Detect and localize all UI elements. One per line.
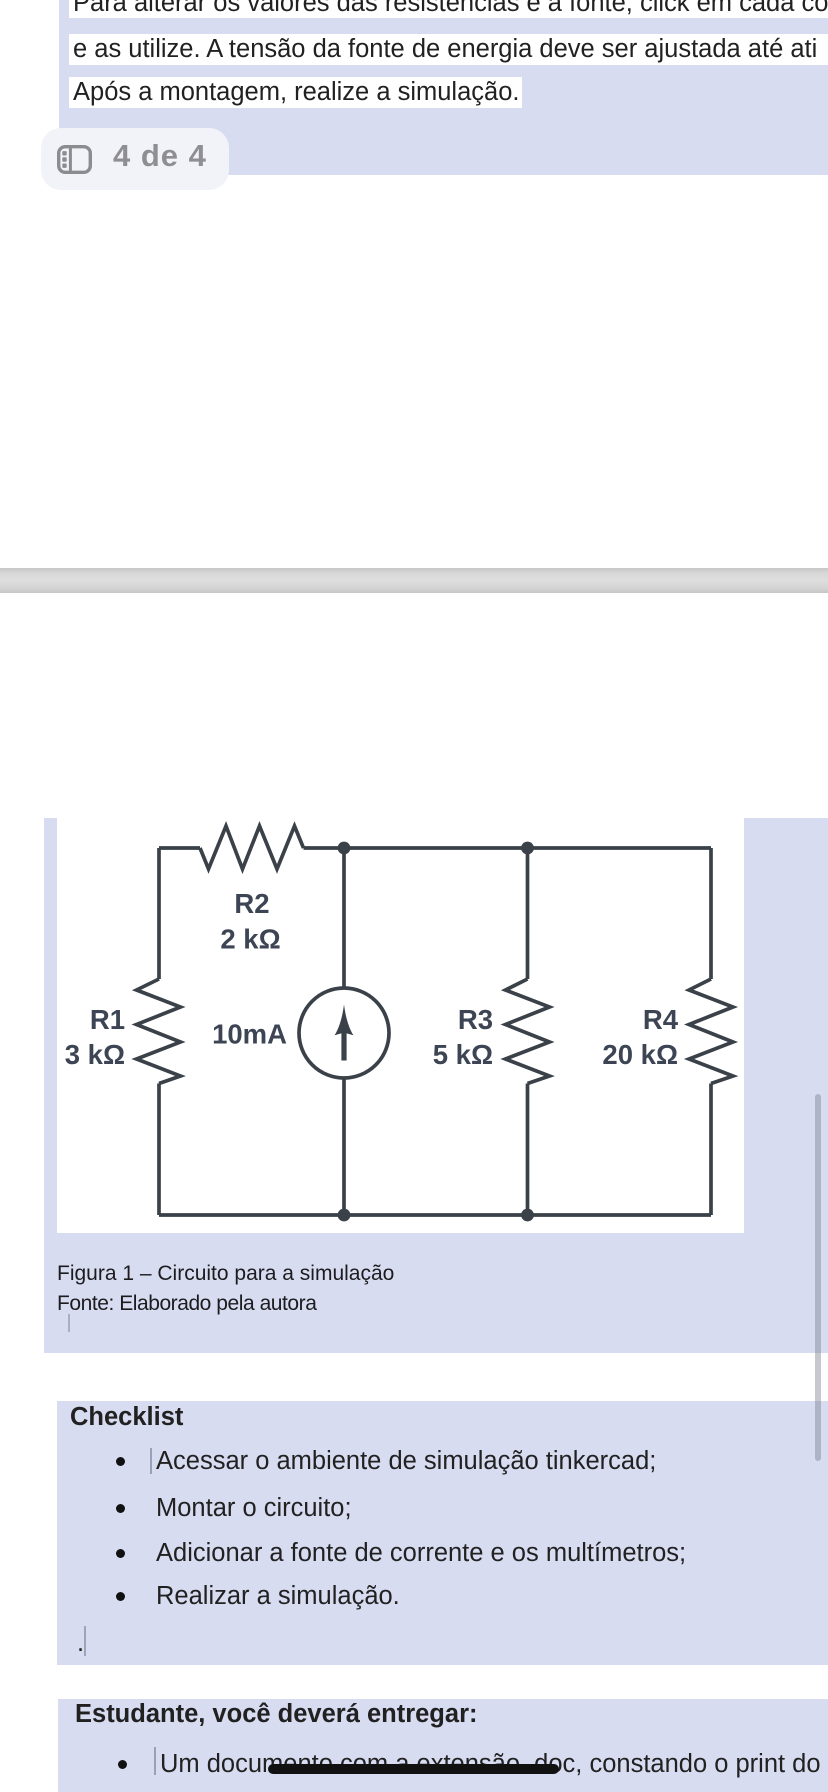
value 20 kΩ <box>602 1039 678 1070</box>
circuit highlighted block <box>44 818 828 1353</box>
wire top left-segment <box>159 846 200 850</box>
value 5 kΩ <box>433 1039 493 1070</box>
scrollbar <box>815 1094 821 1461</box>
caret under caption <box>68 1314 70 1332</box>
wire R4 bottom <box>709 1084 713 1216</box>
label R1 <box>90 1004 125 1035</box>
svg-text:2 kΩ: 2 kΩ <box>220 924 280 955</box>
resistor R4 <box>689 979 733 1084</box>
checklist highlighted block <box>57 1401 828 1665</box>
black redaction bar <box>268 1764 559 1774</box>
node top-right <box>521 842 534 855</box>
svg-text:R2: R2 <box>234 888 269 919</box>
estudante highlighted block <box>58 1699 828 1792</box>
wire R3 top <box>526 848 530 979</box>
gray page separator bar <box>0 568 828 593</box>
checklist heading <box>70 1403 183 1432</box>
resistor R1 <box>137 979 181 1084</box>
label R3 <box>458 1004 493 1035</box>
page indicator pill <box>41 128 229 190</box>
svg-text:R4: R4 <box>643 1004 679 1035</box>
top highlighted paragraph block <box>59 0 828 175</box>
svg-text:R1: R1 <box>90 1004 125 1035</box>
resistor R2 <box>200 826 304 869</box>
estudante heading <box>75 1700 477 1729</box>
wire bottom <box>159 1213 711 1217</box>
wire source top <box>342 848 346 987</box>
white figure background <box>57 818 744 1233</box>
wire source bottom <box>342 1080 346 1216</box>
node top-center <box>338 842 351 855</box>
bullets <box>116 1457 125 1466</box>
value 10mA <box>212 1019 287 1050</box>
pill text <box>113 138 207 174</box>
svg-text:20 kΩ: 20 kΩ <box>602 1039 678 1070</box>
line 2 text <box>73 35 817 64</box>
wire R3 bottom <box>526 1084 530 1216</box>
wire left vertical bottom <box>157 1084 161 1216</box>
svg-text:5 kΩ: 5 kΩ <box>433 1039 493 1070</box>
svg-text:3 kΩ: 3 kΩ <box>65 1039 125 1070</box>
wire left vertical top <box>157 848 161 979</box>
stray period + caret <box>77 1629 84 1658</box>
line 3 text <box>73 78 519 107</box>
svg-text:10mA: 10mA <box>212 1019 287 1050</box>
line 1 text <box>73 0 828 18</box>
wire R4 top <box>709 848 713 979</box>
resistor R3 <box>506 979 550 1084</box>
value 3 kΩ <box>65 1039 125 1070</box>
current source I1 10mA <box>299 988 389 1078</box>
line 2 white strip <box>69 34 828 65</box>
line 1 white strip <box>69 0 828 18</box>
value 2 kΩ <box>220 924 280 955</box>
node bottom-center <box>338 1209 351 1222</box>
figure caption <box>57 1259 394 1289</box>
svg-text:R3: R3 <box>458 1004 493 1035</box>
bullet <box>118 1760 127 1769</box>
sidebar icon <box>57 145 92 174</box>
label R2 <box>234 888 269 919</box>
current source arrow <box>335 1004 354 1060</box>
wire top right-segment <box>304 846 712 850</box>
line 3 white strip <box>69 77 522 108</box>
circuit schematic svg <box>57 818 744 1233</box>
label R4 <box>643 1004 679 1035</box>
node bottom-right <box>521 1209 534 1222</box>
